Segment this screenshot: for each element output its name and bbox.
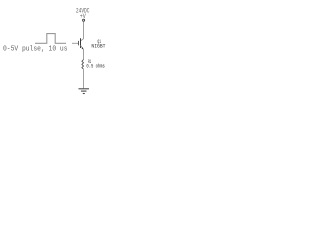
ground bottom bar [83, 93, 85, 95]
transistor Q1 gate lead wire [72, 42, 78, 44]
input pulse waveform symbol [35, 34, 66, 44]
ground middle bar [81, 90, 87, 92]
svg-text:0-5V pulse, 10 us: 0-5V pulse, 10 us [3, 45, 68, 53]
resistor R1 zigzag [82, 60, 84, 70]
supply terminal dot [83, 19, 85, 21]
transistor Q1 emitter arrowhead [82, 47, 84, 49]
transistor Q1 gate bar [78, 41, 80, 46]
wire resistor to ground [83, 69, 85, 88]
svg-text:NIGBT: NIGBT [91, 43, 106, 49]
ground top bar [79, 88, 90, 90]
transistor Q1 body bar [80, 38, 82, 48]
wire collector to +V and collector lead of Q1 [81, 22, 84, 41]
svg-text:+V: +V [80, 13, 86, 20]
svg-text:0.5 ohms: 0.5 ohms [86, 63, 104, 69]
transistor Q1 emitter lead with wire down [81, 45, 84, 59]
